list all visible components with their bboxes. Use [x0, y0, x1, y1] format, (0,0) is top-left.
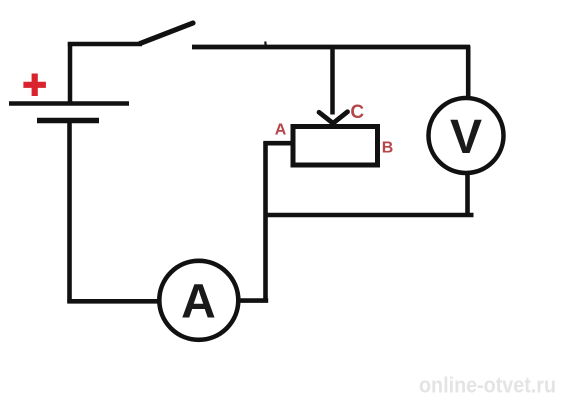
wire middle horizontal	[266, 213, 474, 218]
svg-text:C: C	[350, 102, 364, 123]
wire bottom-left vertical	[67, 120, 72, 303]
voltmeter V1 circle	[429, 98, 504, 173]
svg-text:online-otvet.ru: online-otvet.ru	[419, 373, 556, 398]
svg-text:B: B	[382, 139, 394, 156]
battery long plate (+)	[9, 101, 129, 106]
wire A-terminal stub	[264, 141, 293, 146]
wire battery-top vertical	[68, 42, 73, 104]
svg-text:A: A	[275, 122, 287, 139]
wire top-left horizontal to switch pivot	[68, 42, 142, 47]
svg-text:A: A	[181, 276, 216, 329]
wire A vertical down	[263, 141, 268, 302]
wire voltmeter bottom vertical	[465, 174, 470, 217]
wire to voltmeter top	[466, 46, 471, 97]
wire ammeter left horizontal	[67, 299, 160, 304]
svg-text:V: V	[450, 111, 482, 164]
switch S1 arm	[140, 23, 193, 44]
battery + polarity label	[23, 74, 46, 97]
wire junction nub artifact	[264, 42, 267, 48]
wire wiper branch vertical	[330, 46, 335, 115]
rheostat body R1	[293, 127, 378, 166]
wire ammeter right horizontal	[237, 298, 268, 303]
battery short plate (-)	[37, 118, 99, 124]
wiper arrowhead	[319, 112, 348, 124]
wire switch right contact / top horizontal	[192, 45, 470, 50]
ammeter A1 circle	[159, 261, 238, 340]
